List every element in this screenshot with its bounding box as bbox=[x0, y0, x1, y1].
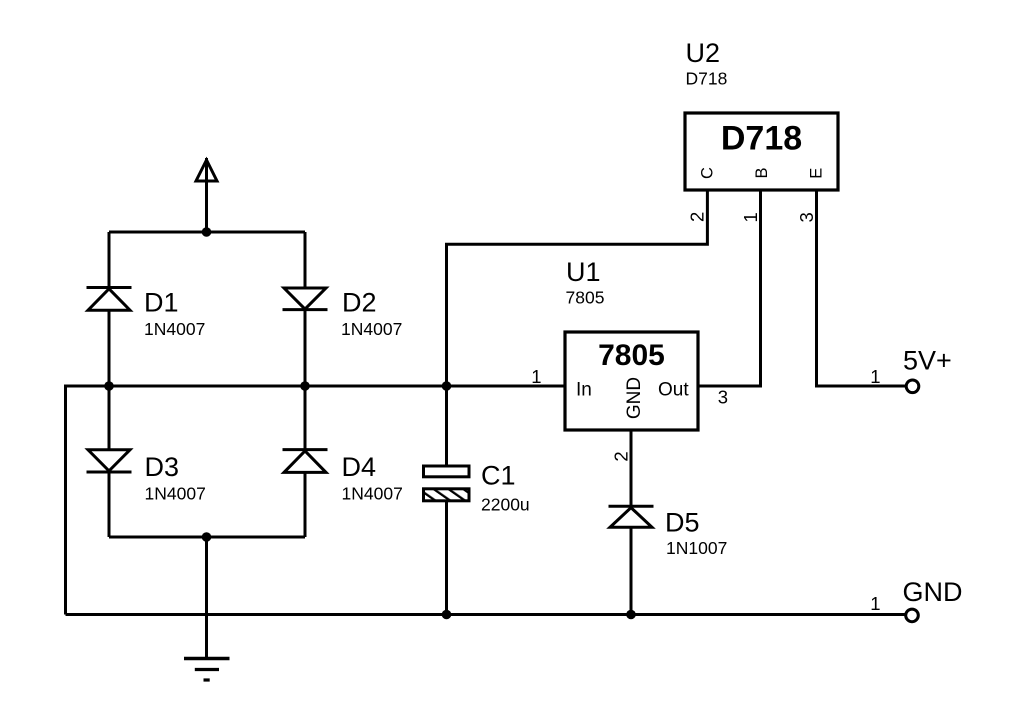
svg-text:C1: C1 bbox=[481, 461, 516, 491]
svg-text:GND: GND bbox=[624, 377, 645, 419]
power arrow symbol bbox=[196, 158, 217, 232]
node junction D2-D4 bbox=[300, 381, 310, 391]
svg-text:2200u: 2200u bbox=[481, 495, 530, 515]
wire U2 emitter to 5V+ bbox=[817, 190, 906, 386]
svg-text:D1: D1 bbox=[144, 288, 179, 318]
wire U1 gnd to D5 bbox=[630, 430, 633, 506]
capacitor C1 bbox=[424, 466, 470, 501]
diode D3 bbox=[87, 450, 132, 472]
svg-text:1: 1 bbox=[870, 366, 880, 387]
op-amp U1 7805 regulator box bbox=[565, 332, 698, 430]
svg-text:D4: D4 bbox=[342, 452, 377, 482]
svg-text:7805: 7805 bbox=[598, 339, 665, 372]
svg-text:1: 1 bbox=[870, 593, 880, 614]
svg-text:C: C bbox=[698, 167, 716, 179]
node junction C1 top bbox=[442, 381, 452, 391]
wire U1 out to U2 base bbox=[698, 190, 761, 386]
wire bridge bottom rail bbox=[109, 536, 305, 539]
svg-text:1N4007: 1N4007 bbox=[342, 484, 403, 504]
node junction top bbox=[202, 227, 212, 237]
svg-text:1: 1 bbox=[531, 366, 541, 387]
svg-text:D5: D5 bbox=[665, 508, 700, 538]
node junction C1 bottom bbox=[442, 610, 452, 620]
wire left rail to U1 input bbox=[66, 386, 566, 615]
terminal GND bbox=[906, 609, 919, 622]
svg-text:2: 2 bbox=[687, 212, 708, 222]
wire left lower branch bbox=[108, 473, 111, 538]
wire D5 to bottom rail bbox=[630, 527, 633, 614]
svg-text:7805: 7805 bbox=[566, 288, 605, 308]
svg-text:B: B bbox=[753, 167, 771, 178]
svg-text:1: 1 bbox=[740, 212, 761, 222]
diode D1 bbox=[87, 288, 132, 311]
wire bottom rail bbox=[66, 613, 906, 616]
wire right upper branch bbox=[304, 232, 307, 288]
svg-text:5V+: 5V+ bbox=[903, 346, 952, 376]
svg-text:1N1007: 1N1007 bbox=[666, 538, 727, 558]
diode D2 bbox=[283, 288, 328, 310]
diode D4 bbox=[283, 450, 328, 473]
svg-text:D3: D3 bbox=[145, 452, 180, 482]
svg-text:D718: D718 bbox=[686, 69, 728, 89]
wire left upper branch bbox=[108, 232, 111, 287]
svg-text:U1: U1 bbox=[566, 257, 601, 287]
wire C1 upper bbox=[445, 386, 448, 466]
svg-text:D718: D718 bbox=[721, 120, 802, 158]
wire left middle branch bbox=[108, 311, 111, 450]
svg-text:Out: Out bbox=[658, 380, 689, 401]
svg-text:E: E bbox=[808, 168, 826, 179]
wire right lower branch bbox=[304, 473, 307, 537]
node junction bridge bottom bbox=[202, 532, 212, 542]
node junction D1-D3 bbox=[104, 381, 114, 391]
svg-text:D2: D2 bbox=[342, 288, 377, 318]
svg-text:2: 2 bbox=[611, 451, 632, 461]
svg-text:GND: GND bbox=[903, 577, 963, 607]
svg-text:1N4007: 1N4007 bbox=[341, 319, 402, 339]
node junction D5 bottom bbox=[626, 610, 636, 620]
transistor U2 D718 box bbox=[685, 113, 838, 190]
diode D5 bbox=[609, 506, 654, 527]
ground bbox=[184, 659, 230, 681]
svg-text:In: In bbox=[576, 380, 592, 401]
svg-text:1N4007: 1N4007 bbox=[145, 484, 206, 504]
wire ground stem bbox=[205, 537, 208, 657]
svg-text:U2: U2 bbox=[686, 38, 721, 68]
terminal 5V+ bbox=[906, 380, 919, 393]
wire right middle branch bbox=[304, 310, 307, 450]
svg-text:3: 3 bbox=[796, 212, 817, 222]
svg-text:1N4007: 1N4007 bbox=[144, 319, 205, 339]
wire to U2 collector bbox=[447, 190, 708, 386]
svg-text:3: 3 bbox=[718, 387, 728, 408]
wire C1 lower bbox=[445, 501, 448, 615]
wire top rail bbox=[109, 231, 305, 234]
